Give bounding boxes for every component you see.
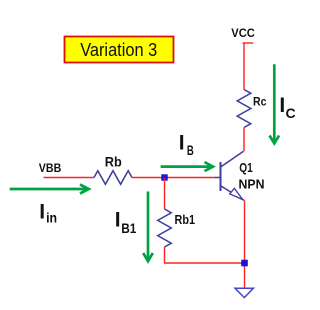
transistor Q1 base bar (220, 162, 222, 191)
current arrow IC (270, 64, 280, 143)
wire Rc to collector (243, 128, 245, 152)
svg-text:B1: B1 (121, 220, 136, 236)
svg-text:NPN: NPN (239, 178, 265, 192)
wire VBB to Rb (44, 177, 95, 179)
svg-text:Rb1: Rb1 (175, 213, 196, 227)
svg-text:Rc: Rc (253, 95, 267, 109)
ground (235, 288, 254, 297)
resistor Rb1 (158, 209, 172, 247)
wire VCC to Rc (243, 43, 245, 90)
svg-text:Rb: Rb (105, 154, 122, 170)
wire Rb1 to bottom rail (165, 247, 242, 263)
svg-text:I: I (39, 200, 45, 223)
svg-text:I: I (115, 208, 121, 231)
svg-text:C: C (286, 105, 296, 121)
VCC terminal stub (243, 42, 254, 44)
svg-text:VCC: VCC (231, 26, 255, 40)
label Iin (39, 200, 57, 225)
transistor Q1 base lead (215, 177, 221, 179)
junction node B (emitter/ground) (241, 260, 248, 267)
wire junction to Rb1 (164, 178, 166, 210)
current arrow IB (161, 162, 213, 171)
svg-text:in: in (46, 211, 57, 226)
current arrow Iin (10, 185, 89, 194)
wire Rb to base junction (132, 177, 216, 179)
junction node A (base) (161, 174, 167, 180)
title box "Variation 3" (65, 37, 174, 63)
label IC (279, 94, 295, 121)
svg-text:B: B (187, 142, 194, 158)
resistor Rb (94, 171, 132, 185)
svg-text:Variation 3: Variation 3 (80, 39, 157, 60)
current arrow IB1 (143, 192, 153, 262)
svg-text:I: I (179, 131, 185, 154)
transistor Q1 collector lead (221, 151, 244, 167)
wire emitter to ground rail (244, 200, 246, 287)
svg-text:I: I (279, 94, 285, 117)
label IB1 (115, 208, 137, 236)
svg-text:Q1: Q1 (239, 161, 253, 175)
transistor Q1 emitter lead (221, 186, 244, 200)
label IB (179, 131, 194, 158)
resistor Rc (237, 90, 251, 128)
svg-text:VBB: VBB (39, 161, 62, 175)
emitter arrowhead (230, 188, 243, 199)
